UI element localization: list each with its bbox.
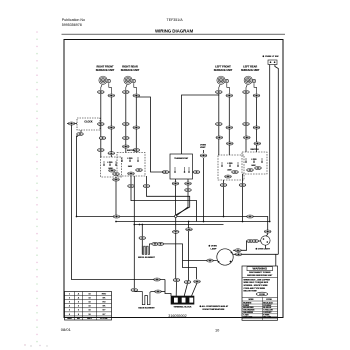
svg-text:BROIL ELEMENT: BROIL ELEMENT [138, 257, 155, 259]
svg-text:CODE: CODE [259, 294, 265, 296]
svg-text:VENT: VENT [200, 147, 206, 149]
svg-text:SWITCH: SWITCH [250, 149, 259, 151]
svg-text:✱ OVEN: ✱ OVEN [209, 244, 218, 247]
svg-text:SURFACE UNIT: SURFACE UNIT [241, 69, 260, 72]
svg-text:& STRL: & STRL [100, 318, 108, 320]
svg-text:OVEN: OVEN [200, 144, 206, 146]
svg-text:L1 H1: L1 H1 [251, 159, 256, 161]
svg-text:WIRING DIAGRAM: WIRING DIAGRAM [155, 29, 193, 34]
svg-text:ROOM TEMPERATURE: ROOM TEMPERATURE [203, 308, 226, 311]
svg-text:GND: GND [67, 318, 72, 320]
svg-text:SURFACE UNIT: SURFACE UNIT [96, 69, 115, 72]
svg-text:LAMP: LAMP [211, 247, 218, 250]
svg-text:✱ ALL COMPONENTS ARE AT: ✱ ALL COMPONENTS ARE AT [200, 305, 229, 308]
svg-text:✱ OVEN LT SW: ✱ OVEN LT SW [263, 55, 280, 58]
svg-text:BEFORE SERVICING UNIT: BEFORE SERVICING UNIT [247, 275, 273, 277]
svg-text:CODE AND TYPE WIRE: CODE AND TYPE WIRE [244, 287, 266, 290]
svg-text:SWITCH: SWITCH [127, 150, 136, 152]
svg-text:SURFACE UNIT: SURFACE UNIT [214, 69, 233, 72]
svg-text:08/01: 08/01 [61, 327, 72, 332]
svg-text:✱ OVEN LIGHT: ✱ OVEN LIGHT [256, 247, 271, 250]
svg-text:SCREWS - SPECIFY WIRE: SCREWS - SPECIFY WIRE [244, 285, 269, 287]
svg-text:WARNING: WARNING [253, 267, 268, 271]
svg-text:TEF351/A: TEF351/A [167, 18, 184, 22]
svg-text:GN/Y: GN/Y [87, 318, 93, 320]
svg-text:WIRE ONLY. TORQUE BOX: WIRE ONLY. TORQUE BOX [244, 282, 269, 284]
svg-text:BELOW TEMP.: BELOW TEMP. [244, 291, 258, 293]
svg-text:THERMOSTAT: THERMOSTAT [174, 157, 189, 160]
svg-text:RED: RED [102, 293, 107, 295]
svg-text:BAKE ELEMENT: BAKE ELEMENT [138, 306, 155, 309]
svg-text:RD: RD [102, 302, 106, 304]
svg-text:CLOCK: CLOCK [84, 122, 93, 124]
svg-text:WIRING BOX - USE COPPER: WIRING BOX - USE COPPER [244, 279, 271, 281]
svg-text:Publication No: Publication No [62, 18, 85, 22]
svg-text:L1 H1: L1 H1 [127, 158, 132, 160]
svg-text:DISCONNECT POWER: DISCONNECT POWER [249, 272, 271, 274]
svg-text:L1 H1: L1 H1 [227, 163, 232, 165]
svg-text:5995356978: 5995356978 [62, 23, 82, 27]
svg-text:SURFACE UNIT: SURFACE UNIT [121, 69, 140, 72]
svg-text:L1 H1: L1 H1 [107, 162, 112, 164]
svg-text:TERMINAL BLOCK: TERMINAL BLOCK [174, 305, 193, 308]
